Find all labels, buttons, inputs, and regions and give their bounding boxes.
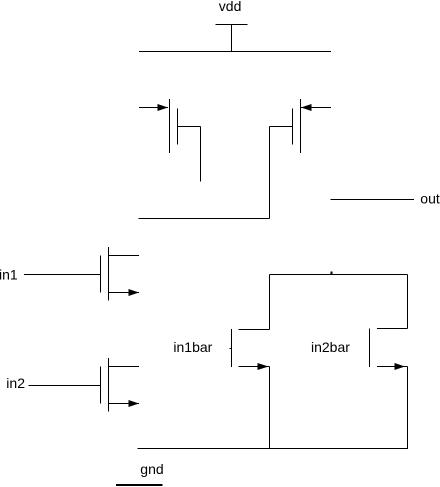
svg-text:in1bar: in1bar — [173, 339, 212, 355]
svg-text:out: out — [420, 191, 440, 207]
svg-text:vdd: vdd — [219, 0, 242, 14]
svg-text:in2bar: in2bar — [311, 339, 350, 355]
svg-text:in1: in1 — [0, 267, 18, 283]
svg-text:gnd: gnd — [140, 461, 163, 477]
svg-text:in2: in2 — [6, 375, 25, 391]
